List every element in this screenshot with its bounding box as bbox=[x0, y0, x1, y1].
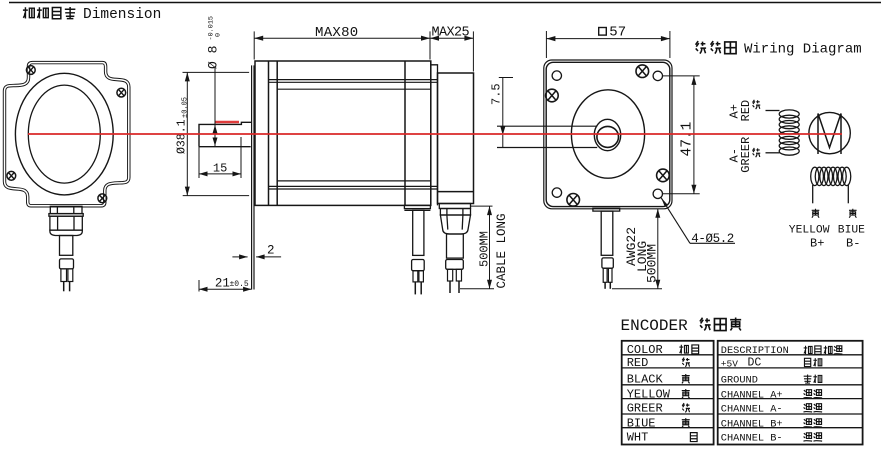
svg-text:DESCRIPTION: DESCRIPTION bbox=[721, 345, 789, 357]
front wires bbox=[64, 282, 70, 292]
svg-text:RED: RED bbox=[627, 356, 649, 370]
motor lead sleeves bbox=[413, 271, 423, 282]
svg-text:CHANNEL A-: CHANNEL A- bbox=[721, 404, 783, 416]
label 黄 YELLOW B+ bbox=[789, 209, 830, 251]
shaft tangent lines bbox=[497, 126, 597, 147]
motor lead wires bbox=[415, 282, 421, 295]
svg-text:Ø38.1: Ø38.1 bbox=[175, 119, 188, 154]
table row RED bbox=[627, 356, 822, 370]
back hole top-left bbox=[552, 71, 561, 80]
encoder table right bbox=[718, 341, 863, 445]
dimension AWG22 LONG 500MM bbox=[612, 209, 662, 289]
phase A coil bbox=[779, 110, 799, 155]
back lead sleeves bbox=[603, 268, 612, 282]
svg-text:DC: DC bbox=[748, 357, 762, 370]
motor wire exit block bbox=[404, 205, 430, 210]
front screw bottom-left bbox=[7, 171, 16, 180]
title 绕线图 Wiring Diagram bbox=[696, 41, 862, 58]
dimension 21±0.5 bbox=[199, 277, 252, 292]
back hole bottom-left bbox=[552, 188, 561, 197]
motor lead strain relief bbox=[412, 260, 425, 271]
svg-text:500MM: 500MM bbox=[477, 231, 491, 267]
encoder lead tube bbox=[447, 234, 464, 258]
svg-text:500MM: 500MM bbox=[644, 244, 659, 283]
front view faceplate outline bbox=[5, 63, 129, 206]
dimension MAX80 bbox=[254, 31, 430, 59]
encoder table left bbox=[622, 341, 714, 445]
dimension MAX25 bbox=[430, 31, 473, 71]
table row BIUE bbox=[627, 417, 822, 431]
title 机械尺寸 Dimension bbox=[23, 7, 161, 23]
svg-text:GROUND: GROUND bbox=[721, 375, 758, 387]
encoder housing bbox=[438, 73, 474, 204]
dimension 2 flange bbox=[232, 243, 281, 259]
svg-text:7.5: 7.5 bbox=[489, 83, 503, 105]
side view motor body bbox=[255, 61, 431, 205]
back screw left bbox=[546, 89, 559, 102]
front cable strain relief bbox=[60, 259, 74, 269]
svg-text:WHT: WHT bbox=[627, 431, 649, 445]
front screw top-right bbox=[117, 88, 126, 97]
encoder lead wires bbox=[450, 281, 459, 293]
svg-text:Wiring Diagram: Wiring Diagram bbox=[744, 42, 862, 58]
dimension 500MM CABLE LONG bbox=[460, 206, 509, 289]
svg-text:BIUE: BIUE bbox=[627, 417, 656, 431]
svg-text:±0.5: ±0.5 bbox=[230, 280, 249, 289]
back lead wires bbox=[605, 282, 610, 289]
rear spacer strip bbox=[431, 61, 438, 205]
front wire sleeves bbox=[61, 269, 73, 282]
back view rotor circle bbox=[571, 90, 644, 178]
lead wire A- bbox=[766, 152, 780, 154]
lead wire B+ bbox=[812, 185, 814, 203]
svg-text:MAX80: MAX80 bbox=[315, 25, 359, 41]
svg-text:21: 21 bbox=[215, 277, 230, 291]
front view outer boss circle bbox=[15, 73, 113, 195]
side view shaft bbox=[199, 122, 252, 146]
svg-text:15: 15 bbox=[213, 161, 227, 175]
svg-text:4-Ø5.2: 4-Ø5.2 bbox=[691, 232, 734, 246]
front screw bottom-right bbox=[98, 194, 107, 203]
svg-text:CHANNEL B+: CHANNEL B+ bbox=[721, 419, 783, 431]
back screw right bbox=[657, 169, 670, 182]
dimension square57 bbox=[546, 24, 670, 58]
svg-text:CHANNEL B-: CHANNEL B- bbox=[721, 433, 783, 445]
svg-text:±0.05: ±0.05 bbox=[181, 97, 189, 118]
back screw bottom bbox=[567, 194, 580, 207]
svg-text:MAX25: MAX25 bbox=[432, 26, 470, 41]
svg-text:0: 0 bbox=[215, 33, 223, 37]
svg-text:2: 2 bbox=[267, 243, 275, 257]
back shaft collar circle bbox=[594, 119, 620, 150]
back shaft circle bbox=[597, 126, 619, 147]
table title ENCODER 编码器 bbox=[621, 317, 742, 335]
dimension 7.5 bbox=[489, 78, 513, 148]
dimension MAX80 text bbox=[315, 25, 359, 41]
dimension dia8 with tolerance bbox=[206, 16, 223, 147]
svg-text:YELLOW: YELLOW bbox=[789, 225, 830, 237]
svg-text:CABLE LONG: CABLE LONG bbox=[495, 213, 509, 288]
front cable tube bbox=[60, 236, 73, 256]
svg-text:BLACK: BLACK bbox=[627, 373, 664, 387]
dimension MAX25 text bbox=[432, 26, 470, 41]
motor lead tube bbox=[413, 210, 424, 255]
svg-text:57: 57 bbox=[609, 24, 626, 40]
svg-text:BIUE: BIUE bbox=[838, 225, 865, 237]
back screw top bbox=[636, 65, 649, 78]
svg-text:+5V: +5V bbox=[721, 358, 738, 369]
front cable gland nut bbox=[49, 206, 83, 235]
leader 4-dia5.2 bbox=[661, 198, 735, 246]
svg-text:B+: B+ bbox=[810, 237, 824, 251]
red centerline bbox=[28, 133, 842, 135]
encoder lead strain relief bbox=[446, 260, 464, 270]
shaft red highlight bbox=[216, 121, 240, 124]
table row COLOR bbox=[627, 343, 843, 357]
dimension dia38.1 bbox=[175, 72, 249, 195]
back view square inner bbox=[546, 62, 670, 206]
back hole top-right bbox=[653, 71, 662, 80]
svg-text:GREER: GREER bbox=[627, 402, 663, 416]
border top line bbox=[9, 2, 881, 4]
svg-text:ENCODER: ENCODER bbox=[621, 317, 689, 335]
front screw top-left bbox=[26, 66, 35, 75]
back view square outer bbox=[544, 60, 672, 209]
svg-text:GREER: GREER bbox=[739, 137, 753, 173]
lead wire B- bbox=[847, 185, 849, 203]
svg-text:B-: B- bbox=[846, 237, 860, 251]
back lead strain relief bbox=[602, 258, 613, 268]
dimension 47.1 bbox=[663, 76, 700, 194]
svg-text:CHANNEL A+: CHANNEL A+ bbox=[721, 390, 783, 402]
lead wire A+ bbox=[766, 110, 780, 112]
dimension 15 bbox=[199, 137, 241, 178]
svg-text:47.1: 47.1 bbox=[679, 122, 695, 157]
svg-text:RED: RED bbox=[739, 100, 753, 122]
back gland collar bbox=[593, 208, 620, 211]
svg-text:Dimension: Dimension bbox=[83, 7, 161, 23]
label 蓝 BIUE B- bbox=[838, 209, 865, 251]
label A- GREER 绿 bbox=[728, 137, 761, 173]
table row BLACK bbox=[627, 373, 822, 387]
motor circle M bbox=[809, 112, 850, 154]
encoder lead sleeves bbox=[448, 269, 462, 281]
table row WHT bbox=[627, 431, 822, 445]
table row GREER bbox=[627, 402, 822, 416]
svg-text:YELLOW: YELLOW bbox=[627, 388, 671, 402]
back hole bottom-right bbox=[653, 189, 662, 198]
svg-text:COLOR: COLOR bbox=[627, 343, 663, 357]
svg-text:Ø 8: Ø 8 bbox=[206, 46, 221, 69]
table row YELLOW bbox=[627, 388, 822, 402]
back lead tube bbox=[601, 211, 613, 255]
encoder gland side view bbox=[439, 204, 470, 235]
motor body ribs bbox=[269, 80, 438, 189]
phase B coil bbox=[811, 167, 851, 185]
label A+ RED 红 bbox=[728, 100, 761, 122]
front view inner circle bbox=[28, 85, 100, 183]
side view flange bbox=[252, 65, 254, 289]
